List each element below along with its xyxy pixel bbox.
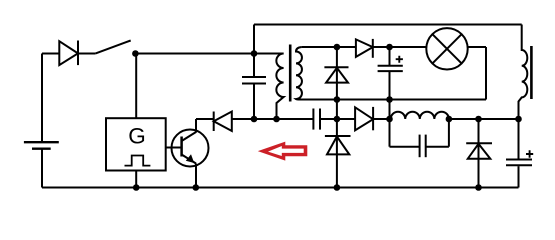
- svg-text:G: G: [128, 123, 146, 148]
